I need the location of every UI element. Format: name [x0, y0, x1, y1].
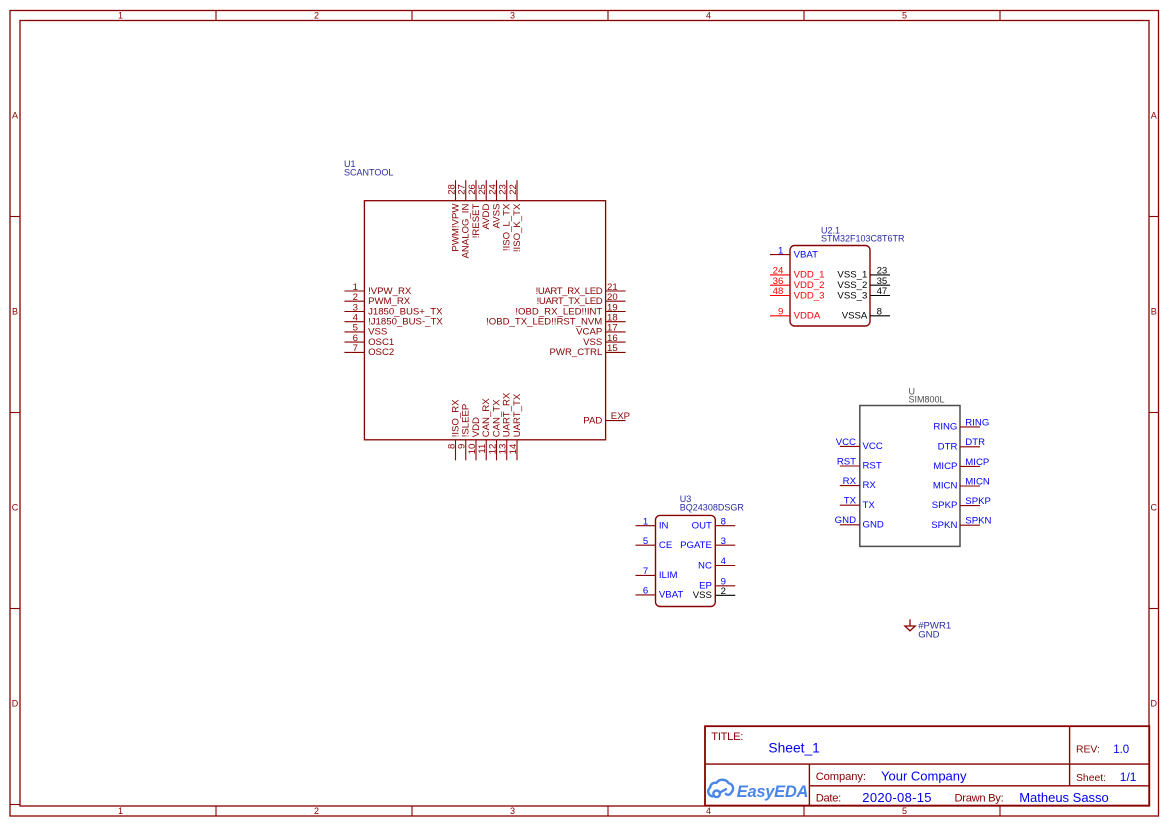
U1 pin 27 (ANALOG_IN) wire: [465, 180, 467, 201]
svg-text:2: 2: [314, 11, 319, 21]
svg-text:5: 5: [902, 806, 907, 816]
title block row divider 2: [809, 785, 1149, 787]
U1 pin 12 (CAN_TX) wire: [496, 440, 498, 461]
svg-text:A: A: [1151, 110, 1157, 120]
U2.1 pin 36 (VDD_2) wire: [770, 284, 790, 286]
svg-text:A: A: [12, 110, 18, 120]
svg-text:VBAT: VBAT: [659, 590, 683, 601]
svg-text:C: C: [12, 502, 19, 512]
svg-text:Sheet_1: Sheet_1: [768, 741, 819, 756]
U1 pin 17 (VCAP) wire: [606, 331, 626, 333]
SIM800L pin TX wire: [840, 504, 860, 506]
svg-text:2: 2: [721, 586, 726, 597]
U3 pin 1 (IN) wire: [636, 525, 656, 527]
border tick bottom: [999, 806, 1001, 816]
svg-text:4: 4: [706, 11, 711, 21]
U1 pin 9 (!SLEEP) wire: [465, 440, 467, 461]
border tick bottom: [803, 806, 805, 816]
svg-text:3: 3: [510, 11, 515, 21]
U1 pin 23 (!ISO_L_TX) wire: [506, 180, 508, 201]
SIM800L pin SPKP wire: [960, 505, 980, 507]
svg-text:VCC: VCC: [836, 437, 856, 448]
U1 pin 3 (J1850_BUS+_TX) wire: [344, 311, 364, 313]
svg-text:!ISO_K_TX: !ISO_K_TX: [512, 203, 523, 252]
svg-text:MICN: MICN: [965, 476, 990, 487]
svg-text:TX: TX: [863, 500, 876, 511]
svg-text:14: 14: [508, 443, 519, 454]
border tick bottom: [411, 806, 413, 816]
U3 pin 7 (ILIM) wire: [636, 574, 656, 576]
svg-text:OUT: OUT: [692, 521, 712, 532]
U2.1 pin 23 (VSS_1) wire: [870, 274, 890, 276]
svg-text:47: 47: [877, 286, 888, 297]
U3 pin 8 (OUT) wire: [715, 525, 735, 527]
svg-text:1.0: 1.0: [1113, 744, 1129, 756]
svg-text:3: 3: [721, 536, 726, 547]
svg-text:VSSA: VSSA: [842, 311, 868, 322]
SIM800L pin VCC wire: [840, 445, 860, 447]
svg-text:6: 6: [643, 586, 648, 597]
module U SIM800L body outline: [860, 406, 960, 547]
svg-text:8: 8: [877, 307, 882, 318]
U3 pin 3 (PGATE) wire: [715, 544, 735, 546]
border tick right: [1149, 412, 1159, 414]
svg-text:7: 7: [643, 566, 648, 577]
svg-text:RING: RING: [933, 422, 957, 433]
svg-text:Sheet:: Sheet:: [1076, 773, 1106, 784]
svg-text:MICP: MICP: [933, 461, 957, 472]
svg-text:OSC2: OSC2: [368, 347, 394, 358]
svg-text:D: D: [1150, 698, 1157, 708]
svg-text:VDD_3: VDD_3: [794, 290, 825, 301]
U3 pin 2 (VSS) wire: [715, 594, 735, 596]
U2.1 pin 8 (VSSA) wire: [870, 315, 890, 317]
svg-text:VCC: VCC: [863, 441, 883, 452]
SIM800L pin MICP wire: [960, 465, 980, 467]
svg-text:MICP: MICP: [965, 457, 989, 468]
SIM800L pin GND wire: [840, 524, 860, 526]
svg-text:RX: RX: [843, 476, 857, 487]
svg-text:Company:: Company:: [816, 771, 866, 783]
svg-text:2: 2: [314, 806, 319, 816]
svg-text:SPKP: SPKP: [965, 496, 991, 507]
U3 pin 5 (CE) wire: [636, 544, 656, 546]
U1 pin 20 (!UART_TX_LED) wire: [606, 300, 626, 302]
IC U2.1 body outline: [790, 246, 870, 327]
U2.1 pin 24 (VDD_1) wire: [770, 274, 790, 276]
svg-text:Matheus Sasso: Matheus Sasso: [1019, 790, 1109, 805]
U1 pin 16 (VSS) wire: [606, 341, 626, 343]
svg-text:5: 5: [902, 11, 907, 21]
U1 pin 1 (!VPW_RX) wire: [344, 290, 364, 292]
SIM800L pin DTR wire: [960, 446, 980, 448]
title block row divider 1: [705, 763, 1149, 765]
svg-text:PGATE: PGATE: [680, 540, 712, 551]
U1 pin 28 (PWM!VPW) wire: [455, 180, 457, 201]
svg-text:PWR_CTRL: PWR_CTRL: [550, 347, 603, 358]
U1 pin 14 (UART_TX) wire: [516, 440, 518, 461]
svg-text:8: 8: [721, 516, 726, 527]
U1 pin 4 (!J1850_BUS-_TX) wire: [344, 321, 364, 323]
U1 pin 24 (AVSS) wire: [496, 180, 498, 201]
svg-text:GND: GND: [835, 515, 856, 526]
border tick top: [607, 11, 609, 21]
U1 pin 7 (OSC2) wire: [344, 351, 364, 353]
U1 pin 11 (CAN_RX) wire: [485, 440, 487, 461]
border tick left: [10, 608, 20, 610]
svg-text:4: 4: [721, 556, 727, 567]
border tick top: [411, 11, 413, 21]
IC U1 body outline: [364, 201, 605, 440]
U1 pin 2 (PWM_RX) wire: [344, 300, 364, 302]
svg-text:CE: CE: [659, 540, 672, 551]
svg-text:TITLE:: TITLE:: [711, 731, 743, 743]
U2.1 pin 1 (VBAT) wire: [770, 254, 790, 256]
U1 pin 19 (!OBD_RX_LED!!INT) wire: [606, 311, 626, 313]
SIM800L pin RST wire: [840, 465, 860, 467]
SIM800L pin MICN wire: [960, 485, 980, 487]
border tick top: [803, 11, 805, 21]
svg-text:22: 22: [508, 184, 519, 195]
U1 pin 26 (!RESET) wire: [475, 180, 477, 201]
svg-text:1: 1: [118, 11, 123, 21]
svg-text:RX: RX: [863, 480, 877, 491]
U1 pin 10 (VDD) wire: [475, 440, 477, 461]
svg-text:DTR: DTR: [965, 437, 985, 448]
border tick left bottom: [10, 804, 20, 806]
SIM800L pin RING wire: [960, 426, 980, 428]
svg-text:3: 3: [510, 806, 515, 816]
svg-text:REV:: REV:: [1076, 745, 1100, 756]
border tick right: [1149, 216, 1159, 218]
svg-text:SIM800L: SIM800L: [909, 394, 945, 404]
svg-text:1/1: 1/1: [1120, 770, 1137, 784]
svg-text:1: 1: [118, 806, 123, 816]
svg-text:7: 7: [353, 343, 358, 354]
U3 pin 9 (EP) wire: [715, 585, 735, 587]
svg-text:ILIM: ILIM: [659, 570, 678, 581]
U1 pin 18 (!OBD_TX_LED!!RST_NVM) wire: [606, 321, 626, 323]
border tick top: [999, 11, 1001, 21]
svg-text:RST: RST: [837, 456, 856, 467]
svg-text:B: B: [1151, 306, 1157, 316]
svg-text:48: 48: [773, 286, 784, 297]
U1 pin EXP (PAD) wire: [606, 420, 626, 422]
svg-text:Drawn By:: Drawn By:: [955, 793, 1004, 805]
svg-text:SPKP: SPKP: [932, 500, 958, 511]
svg-text:UART_TX: UART_TX: [512, 393, 523, 437]
U1 pin 6 (OSC1) wire: [344, 341, 364, 343]
svg-text:4: 4: [706, 806, 711, 816]
border tick right: [1149, 608, 1159, 610]
svg-text:B: B: [12, 306, 18, 316]
svg-text:SCANTOOL: SCANTOOL: [344, 168, 393, 178]
U2.1 pin 9 (VDDA) wire: [770, 315, 790, 317]
svg-text:2020-08-15: 2020-08-15: [862, 790, 932, 805]
SIM800L pin SPKN wire: [960, 524, 980, 526]
svg-text:1: 1: [778, 245, 783, 256]
IC U3 body outline: [656, 515, 716, 606]
svg-text:D: D: [12, 698, 19, 708]
svg-text:MICN: MICN: [933, 481, 958, 492]
svg-text:Your Company: Your Company: [881, 768, 967, 783]
svg-text:PAD: PAD: [583, 415, 602, 426]
svg-text:EasyEDA: EasyEDA: [737, 783, 808, 801]
svg-text:RST: RST: [863, 461, 882, 472]
title block logo cell divider: [808, 764, 810, 806]
svg-text:1: 1: [643, 516, 648, 527]
title block outline: [705, 726, 1149, 805]
title block rev column divider: [1069, 726, 1071, 786]
EasyEDA logo cloud icon: [708, 780, 733, 797]
svg-text:VSS_3: VSS_3: [837, 290, 867, 301]
U2.1 pin 35 (VSS_2) wire: [870, 284, 890, 286]
U3 pin 6 (VBAT) wire: [636, 594, 656, 596]
svg-text:15: 15: [607, 343, 618, 354]
svg-text:SPKN: SPKN: [931, 520, 957, 531]
svg-text:RING: RING: [965, 417, 989, 428]
border tick bottom: [215, 806, 217, 816]
SIM800L pin RX wire: [840, 485, 860, 487]
border tick bottom: [607, 806, 609, 816]
border tick left: [10, 412, 20, 414]
svg-text:IN: IN: [659, 521, 669, 532]
svg-text:DTR: DTR: [938, 441, 958, 452]
U1 pin 8 (!ISO_RX) wire: [455, 440, 457, 461]
svg-text:Date:: Date:: [816, 793, 841, 805]
power flag GND triangle: [905, 626, 915, 631]
svg-text:STM32F103C8T6TR: STM32F103C8T6TR: [821, 233, 905, 243]
U2.1 pin 47 (VSS_3) wire: [870, 295, 890, 297]
U1 pin 21 (!UART_RX_LED) wire: [606, 290, 626, 292]
border tick left: [10, 216, 20, 218]
U2.1 pin 48 (VDD_3) wire: [770, 295, 790, 297]
svg-text:C: C: [1150, 502, 1157, 512]
power flag #PWR1 GND symbol stem: [909, 619, 911, 626]
svg-text:VBAT: VBAT: [794, 249, 818, 260]
svg-text:GND: GND: [863, 519, 884, 530]
svg-text:GND: GND: [918, 629, 939, 640]
svg-text:EXP: EXP: [611, 411, 630, 422]
svg-text:NC: NC: [698, 560, 712, 571]
svg-text:TX: TX: [844, 496, 857, 507]
U1 pin 13 (UART_RX) wire: [506, 440, 508, 461]
U1 pin 22 (!ISO_K_TX) wire: [516, 180, 518, 201]
U1 pin 5 (VSS) wire: [344, 331, 364, 333]
border tick top: [215, 11, 217, 21]
svg-text:5: 5: [643, 536, 648, 547]
svg-text:VDDA: VDDA: [794, 311, 821, 322]
svg-text:VSS: VSS: [693, 590, 712, 601]
svg-text:9: 9: [778, 307, 783, 318]
svg-text:BQ24308DSGR: BQ24308DSGR: [680, 503, 745, 513]
svg-text:SPKN: SPKN: [965, 516, 991, 527]
U1 pin 15 (PWR_CTRL) wire: [606, 351, 626, 353]
U3 pin 4 (NC) wire: [715, 565, 735, 567]
U1 pin 25 (AVDD) wire: [485, 180, 487, 201]
